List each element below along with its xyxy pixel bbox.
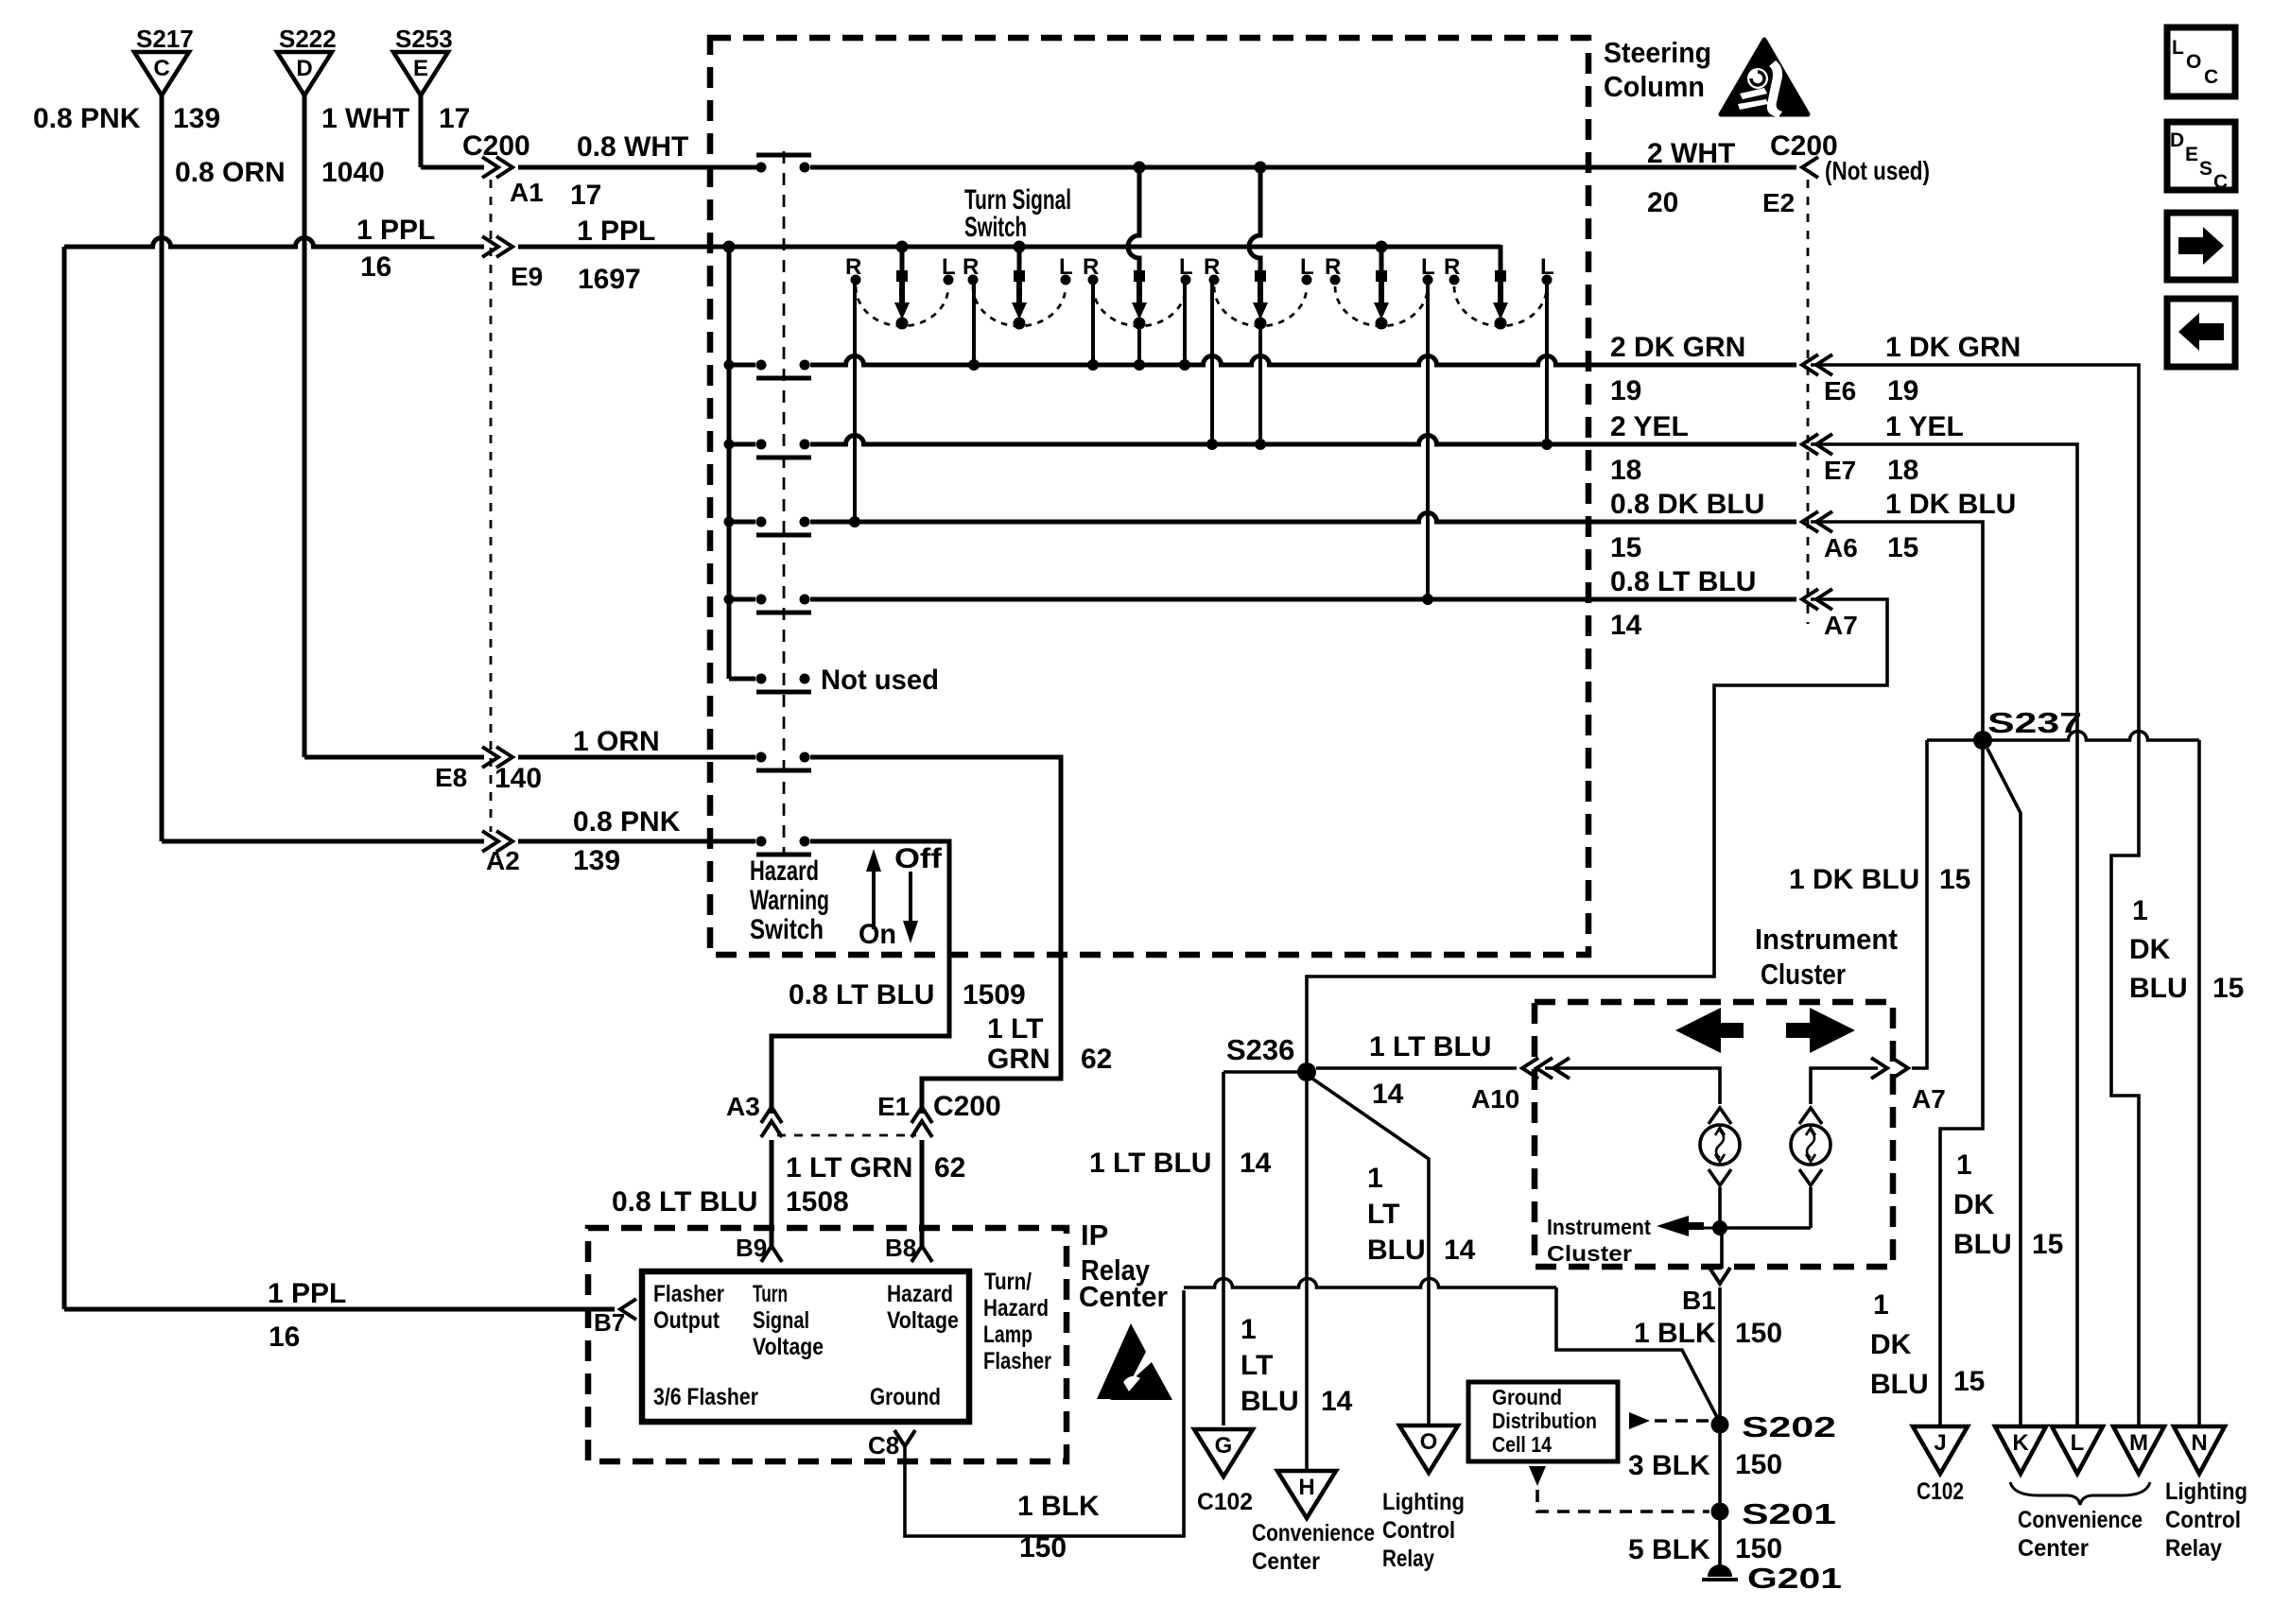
turn signal switch wiper group at x=1461 [1376,241,1388,253]
svg-text:A1: A1 [510,178,544,207]
svg-text:C200: C200 [462,130,530,162]
svg-text:R: R [1325,254,1341,280]
svg-text:E1: E1 [877,1092,910,1121]
DESC nav box [2167,122,2235,190]
triangle G to C102 [1194,1429,1253,1477]
wire 1 LT GRN 62 E1 to B8 [920,1140,925,1246]
svg-text:Instrument: Instrument [1547,1215,1651,1239]
svg-text:62: 62 [934,1152,965,1183]
triangle L [2052,1426,2103,1474]
triangle J to C102 [1913,1426,1968,1474]
svg-text:1 DK BLU: 1 DK BLU [1789,864,1919,895]
left turn indicator arrow [1675,1008,1744,1053]
svg-text:J: J [1934,1430,1946,1456]
svg-text:16: 16 [360,251,391,283]
svg-text:20: 20 [1647,187,1678,218]
svg-text:C200: C200 [933,1091,1001,1122]
svg-text:1 LT BLU: 1 LT BLU [1089,1148,1211,1179]
svg-text:Flasher: Flasher [983,1348,1051,1374]
svg-text:S237: S237 [1987,706,2082,739]
svg-text:A10: A10 [1471,1084,1519,1114]
svg-text:C102: C102 [1197,1489,1253,1515]
svg-text:Center: Center [1079,1280,1168,1313]
turn signal switch wiper group at x=1587 [1499,245,1503,276]
svg-text:A2: A2 [486,846,520,875]
ground distribution callout box [1468,1382,1618,1461]
wire 1 DK GRN from E6 down to M (jog around label) [1811,365,2139,1425]
svg-text:Control: Control [2165,1507,2241,1533]
wire 0.8 ORN 1040 from D down to E8 [303,95,307,757]
svg-text:0.8 ORN: 0.8 ORN [175,157,286,188]
svg-text:15: 15 [1610,532,1641,563]
wire S236 diagonal branch to O [1312,1079,1429,1425]
svg-text:1: 1 [1367,1163,1383,1194]
svg-text:L: L [1179,254,1193,280]
connector E1 arrows [911,1107,932,1123]
svg-text:1 BLK: 1 BLK [1634,1318,1716,1349]
wiper drop G3-C to DK GRN line [1137,323,1141,365]
svg-text:15: 15 [2032,1229,2063,1260]
svg-text:O: O [2186,51,2201,73]
svg-text:1 PPL: 1 PPL [268,1278,346,1309]
svg-text:IP: IP [1081,1218,1108,1252]
svg-text:R: R [963,254,979,280]
svg-text:19: 19 [1610,375,1641,406]
svg-text:BLU: BLU [2129,973,2188,1004]
svg-text:Lighting: Lighting [2165,1478,2247,1505]
svg-text:GRN: GRN [987,1044,1050,1075]
svg-text:1508: 1508 [786,1186,849,1218]
svg-text:Column: Column [1604,70,1705,103]
wire A7 steering to S236 [1307,599,1887,1063]
svg-text:0.8 LT BLU: 0.8 LT BLU [1610,566,1756,597]
convenience center brace [2010,1482,2150,1505]
wire 1 BLK 150 B1 to S202 [1718,1287,1722,1564]
wiper drop G1-R to DK BLU line [853,280,857,522]
svg-text:On: On [859,919,896,950]
svg-text:16: 16 [269,1322,300,1353]
svg-text:R: R [1444,254,1460,280]
svg-text:62: 62 [1081,1044,1112,1075]
wire 1 BLK 150 from C8 to S202 [905,1290,1184,1536]
svg-text:BLU: BLU [1870,1369,1929,1400]
connector C200 left dashed line [490,180,493,832]
cluster internal feed line A10 to left bulb [1545,1068,1720,1104]
wire B1 down from cluster [1720,1228,1724,1269]
svg-text:Distribution: Distribution [1492,1408,1597,1433]
ground G201 [1708,1564,1732,1577]
svg-text:Cell 14: Cell 14 [1492,1432,1552,1457]
svg-text:C: C [2213,171,2228,193]
turn signal switch wiper group at x=1205 [1134,162,1146,174]
svg-text:G201: G201 [1747,1562,1842,1595]
switch contact at y=718 [756,674,767,684]
svg-text:E6: E6 [1824,376,1856,406]
svg-text:E9: E9 [511,262,543,291]
svg-text:1 DK GRN: 1 DK GRN [1885,332,2021,363]
svg-text:Relay: Relay [2165,1535,2222,1562]
dashed ref arrow to S202 [1629,1412,1650,1429]
svg-text:S236: S236 [1226,1033,1294,1066]
wire hazard output ORN row to E1/B8 [810,757,1061,1114]
wiper drop G3-R to DK GRN line [1091,280,1095,365]
svg-text:E8: E8 [435,763,467,792]
wire S236 down branch to H [1305,1081,1309,1471]
svg-text:BLU: BLU [1953,1229,2012,1260]
right arrow nav box [2167,213,2235,280]
svg-text:Cluster: Cluster [1547,1241,1632,1266]
svg-text:Convenience: Convenience [2018,1507,2143,1533]
svg-text:L: L [1300,254,1314,280]
connector E2 C200 right [1802,157,1818,178]
svg-text:150: 150 [1735,1533,1782,1564]
svg-text:3/6 Flasher: 3/6 Flasher [653,1384,758,1410]
svg-text:Switch: Switch [750,914,824,945]
svg-text:LT: LT [1367,1199,1399,1230]
svg-text:LT: LT [1241,1350,1273,1381]
connector C200 right dashed line [1807,180,1810,624]
svg-text:0.8 PNK: 0.8 PNK [33,103,141,134]
svg-text:1 PPL: 1 PPL [577,216,655,247]
svg-text:E7: E7 [1824,456,1856,485]
svg-text:1 LT GRN: 1 LT GRN [786,1152,912,1183]
steering column dashed box [710,38,1588,955]
svg-text:1 YEL: 1 YEL [1885,411,1964,442]
svg-text:1040: 1040 [321,157,385,188]
svg-text:A7: A7 [1824,611,1858,640]
connector A6 arrows and labels [1816,511,1832,532]
connector C200 dashed between A3 and E1 [777,1134,916,1137]
pin B8 [911,1246,932,1262]
svg-text:0.8 PNK: 0.8 PNK [573,806,681,838]
svg-text:E: E [413,56,428,81]
svg-text:S202: S202 [1742,1410,1836,1443]
wiper drop G6-L to YEL line [1545,280,1549,444]
svg-text:1697: 1697 [578,264,641,295]
svg-text:3 BLK: 3 BLK [1628,1450,1710,1481]
splice S202 [1711,1416,1729,1434]
svg-text:1: 1 [1956,1149,1972,1181]
svg-text:DK: DK [2129,934,2171,965]
switch contact at y=634 [756,595,767,605]
wiper drop G4-C to YEL line [1258,323,1262,444]
svg-text:A6: A6 [1824,533,1858,562]
wire 0.8 PNK 139 from C down to A2 [160,95,165,841]
svg-text:0.8 WHT: 0.8 WHT [577,131,688,163]
svg-text:14: 14 [1240,1148,1272,1179]
svg-text:Hazard: Hazard [887,1281,953,1307]
connector A1 arrows [482,157,498,178]
svg-text:S222: S222 [279,25,337,53]
wire 2 DK GRN 19 to E6 [810,356,1796,366]
triangle H to convenience center [1277,1471,1336,1518]
svg-text:M: M [2129,1430,2148,1456]
svg-text:L: L [942,254,956,280]
connector A7 arrows and labels [1816,589,1832,610]
svg-text:S: S [2199,158,2212,180]
svg-text:5 BLK: 5 BLK [1628,1534,1710,1565]
svg-text:Control: Control [1382,1517,1455,1544]
svg-text:14: 14 [1444,1235,1476,1266]
svg-text:R: R [1083,254,1099,280]
wire 1 PPL 16 horizontal to E9 (hops over C and D wires) [64,238,484,248]
svg-text:Convenience: Convenience [1252,1520,1375,1546]
triangle O to lighting control relay [1399,1425,1458,1473]
hazard/turn switch mechanical linkage dashed line [783,151,786,855]
svg-text:2 YEL: 2 YEL [1610,411,1689,442]
svg-text:Ground: Ground [1492,1385,1562,1409]
triangle N to lighting control relay [2174,1426,2225,1474]
wiper drop G4-R to YEL line [1210,280,1214,444]
svg-text:R: R [845,254,861,280]
svg-text:18: 18 [1887,455,1918,486]
svg-text:G: G [1215,1433,1233,1459]
turn signal switch wiper group at x=954 [896,241,909,253]
svg-text:D: D [2170,130,2184,151]
wire 1 YEL from E7 down to L [1811,444,2077,1425]
wire 1 PPL 16 to B7 [64,1307,615,1312]
svg-text:1 LT BLU: 1 LT BLU [1369,1031,1491,1063]
svg-text:Turn: Turn [753,1281,788,1307]
svg-text:BLU: BLU [1367,1235,1426,1266]
turn/hazard lamp flasher box [642,1271,969,1422]
svg-text:C: C [2204,66,2218,88]
svg-text:DK: DK [1953,1189,1995,1220]
svg-text:14: 14 [1610,610,1642,641]
svg-text:B1: B1 [1682,1286,1716,1315]
indicator bulb at x=1819 [1709,1108,1731,1124]
svg-text:K: K [2012,1430,2029,1456]
wire 0.8 WHT to E2 (not used) [810,165,1796,170]
svg-text:Center: Center [2018,1535,2089,1562]
svg-text:L: L [1540,254,1554,280]
svg-text:2 WHT: 2 WHT [1647,138,1735,169]
wire 2 YEL 18 to E7 [810,436,1796,444]
svg-text:1 BLK: 1 BLK [1017,1491,1100,1522]
dashed ref arrow to S201 [1529,1466,1546,1486]
svg-text:15: 15 [2212,973,2244,1004]
wire 1 ORN 140 from D to E8 [304,755,484,760]
connector E9 arrows [482,236,498,257]
svg-text:140: 140 [495,763,542,794]
cluster A7 right exit [1871,1058,1887,1079]
LOC nav box [2167,27,2235,96]
svg-text:Warning: Warning [750,885,829,916]
svg-text:Switch: Switch [964,212,1027,243]
svg-text:Hazard: Hazard [750,855,819,887]
switch contact at y=470 [756,440,767,450]
svg-text:1 LT: 1 LT [987,1013,1043,1045]
switch contact at y=552 [756,517,767,527]
svg-text:A7: A7 [1912,1084,1946,1114]
wire hazard output PNK row to A3/B9 [772,841,949,1114]
svg-text:O: O [1420,1429,1438,1455]
svg-text:139: 139 [573,845,620,876]
svg-text:1 WHT: 1 WHT [321,103,409,134]
svg-text:Instrument: Instrument [1755,923,1898,956]
left arrow nav box [2167,299,2235,367]
hazard off arrow (up) [872,870,876,929]
svg-text:15: 15 [1939,864,1970,895]
wire 0.8 LT BLU 14 to A7 [810,597,1796,602]
svg-text:D: D [296,56,312,81]
svg-text:R: R [1204,254,1220,280]
triangle K [1995,1426,2046,1474]
svg-text:0.8 DK BLU: 0.8 DK BLU [1610,489,1764,520]
svg-text:BLU: BLU [1241,1386,1299,1417]
svg-text:1 ORN: 1 ORN [573,726,660,757]
turn signal switch wiper group at x=1333 [1255,162,1267,174]
svg-text:1 PPL: 1 PPL [356,215,435,246]
svg-text:150: 150 [1735,1449,1782,1480]
wiper drop G5-L to LT BLU line [1426,280,1430,599]
wire S237 right to N [1927,732,2199,741]
svg-text:18: 18 [1610,455,1641,486]
svg-text:150: 150 [1019,1532,1067,1564]
svg-text:N: N [2191,1430,2207,1456]
switch contact on 0.8 WHT line (bar above) [756,163,767,173]
instrument pointer arrow [1657,1216,1689,1236]
svg-text:1 DK BLU: 1 DK BLU [1885,489,2016,520]
right bulb feed line to A7 exit [1811,1068,1878,1104]
svg-text:Steering: Steering [1604,36,1711,69]
svg-text:H: H [1298,1475,1314,1500]
svg-text:Voltage: Voltage [887,1307,959,1334]
svg-text:B9: B9 [736,1234,767,1262]
IP relay center dashed box [588,1228,1067,1461]
feed wire from 1 PPL to switch poles [723,241,736,253]
SIR airbag warning triangle icon [1721,40,1808,114]
connector E7 arrows and labels [1816,434,1832,455]
wire S237 down to J C102 [1940,745,1983,1425]
svg-text:(Not used): (Not used) [1825,156,1930,185]
svg-text:1: 1 [1241,1314,1257,1345]
svg-text:Hazard: Hazard [983,1295,1049,1322]
wire 1 WHT 17 from E down to A1 [419,95,424,167]
svg-text:0.8 LT BLU: 0.8 LT BLU [612,1186,757,1218]
ESD sensitivity icon [1097,1323,1146,1399]
svg-text:1: 1 [2132,895,2148,926]
hazard on arrow (down) [909,872,912,923]
svg-text:B7: B7 [594,1308,625,1337]
connector E6 arrows and labels [1816,354,1832,375]
wire 1 LT GRN 1508 A3 to B9 [770,1140,774,1246]
svg-text:Not used: Not used [821,665,939,696]
svg-text:0.8 LT BLU: 0.8 LT BLU [789,979,934,1011]
cluster instrument feed junction [1712,1220,1727,1235]
svg-text:L: L [2172,37,2184,59]
svg-text:Voltage: Voltage [753,1334,824,1360]
wire cluster A7 up to S237 line [1912,740,1927,1068]
splice S237 [1973,731,1992,750]
instrument cluster dashed box [1535,1002,1893,1267]
wire 1 DK BLU from A6 to S237 [1811,522,1983,735]
wiper drop G2-R to DK GRN line [972,280,976,365]
wire E to C200 A1 corner [421,165,484,170]
switch contact at y=801 [756,752,767,763]
splice S236 [1297,1063,1316,1081]
svg-text:E2: E2 [1762,188,1795,217]
wiper drop G3-L to DK GRN line [1183,280,1187,365]
svg-text:Relay: Relay [1382,1546,1434,1572]
svg-text:2 DK GRN: 2 DK GRN [1610,332,1745,363]
svg-text:A3: A3 [726,1092,760,1121]
svg-text:Flasher: Flasher [653,1281,724,1307]
svg-text:Off: Off [894,843,943,874]
svg-text:C102: C102 [1917,1478,1964,1505]
svg-text:Lamp: Lamp [983,1322,1032,1348]
svg-text:14: 14 [1372,1079,1404,1110]
svg-text:L: L [1059,254,1073,280]
svg-text:L: L [2071,1430,2085,1456]
switch contact at y=890 [756,837,767,847]
right turn indicator arrow [1786,1008,1855,1053]
turn signal switch wiper group at x=1078 [1014,241,1026,253]
svg-text:1: 1 [1873,1289,1889,1321]
switch contact at y=386 [756,360,767,371]
wire S237 diagonal to K [1987,749,2021,1425]
connector A3 arrows [761,1107,782,1123]
svg-text:E: E [2185,144,2198,165]
svg-text:S217: S217 [136,25,194,53]
indicator bulb at x=1915 [1799,1108,1822,1124]
svg-text:1509: 1509 [963,979,1026,1011]
splice S201 [1711,1503,1729,1521]
triangle M [2113,1426,2164,1474]
svg-text:C8: C8 [868,1431,899,1460]
svg-text:S201: S201 [1742,1497,1836,1530]
svg-text:139: 139 [173,103,220,134]
svg-text:C: C [153,56,169,81]
svg-text:15: 15 [1887,532,1918,563]
svg-text:19: 19 [1887,375,1918,406]
svg-text:S253: S253 [395,25,453,53]
svg-text:Ground: Ground [870,1384,941,1410]
pin B9 [761,1246,782,1262]
wire S236 to A10 [1316,1066,1517,1070]
wire 0.8 DK BLU 15 to A6 [810,513,1796,523]
svg-text:17: 17 [570,180,601,211]
svg-text:L: L [1421,254,1435,280]
svg-text:Output: Output [653,1307,720,1334]
svg-text:Center: Center [1252,1548,1320,1575]
svg-text:DK: DK [1870,1329,1912,1360]
svg-text:150: 150 [1735,1318,1782,1349]
wire 0.8 PNK 139 from C to A2 [162,839,484,844]
wire S236 left branch to G (C102) [1223,1070,1307,1074]
svg-text:Cluster: Cluster [1761,958,1846,991]
svg-text:14: 14 [1321,1386,1353,1417]
svg-text:Signal: Signal [753,1307,809,1334]
svg-text:15: 15 [1953,1366,1985,1397]
wire 1 PPL 16 left vertical to B7 [62,247,67,1309]
wire 1 PPL 1697 into switch [518,245,1501,250]
svg-text:Turn/: Turn/ [984,1269,1032,1295]
svg-text:B8: B8 [885,1234,916,1262]
svg-text:Lighting: Lighting [1382,1489,1465,1515]
